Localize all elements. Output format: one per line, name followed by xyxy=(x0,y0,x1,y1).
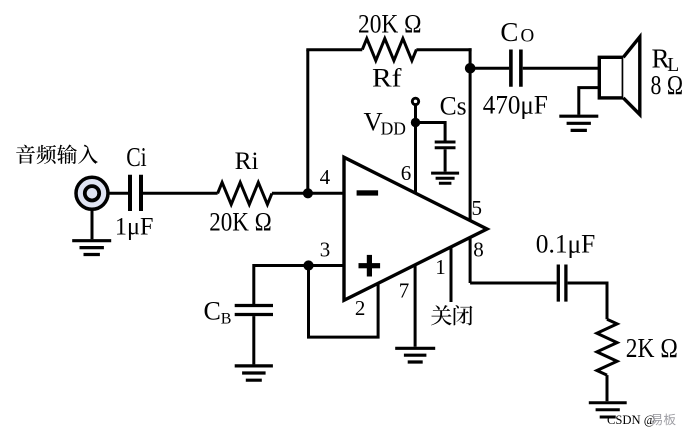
wire output vertical xyxy=(469,48,472,283)
svg-text:CSDN @: CSDN @ xyxy=(607,413,655,427)
capacitor 0.1μF xyxy=(558,265,566,302)
svg-text:2: 2 xyxy=(355,296,366,320)
svg-text:O: O xyxy=(521,25,535,46)
ground (CB) xyxy=(235,366,273,380)
svg-text:2K Ω: 2K Ω xyxy=(626,332,678,363)
svg-text:20K Ω: 20K Ω xyxy=(209,206,271,236)
node VDD junction xyxy=(411,118,420,127)
capacitor Ci xyxy=(130,175,141,211)
label RL xyxy=(652,44,680,77)
resistor Ri xyxy=(218,182,272,204)
label Co xyxy=(500,17,534,47)
svg-text:C: C xyxy=(204,297,221,326)
wire output to 0.1uF xyxy=(470,282,556,285)
label VDD xyxy=(364,106,406,138)
resistor 2K xyxy=(597,319,617,375)
svg-text:4: 4 xyxy=(320,165,331,189)
wire pin 7 to ground xyxy=(414,265,417,347)
wire feedback vertical xyxy=(306,50,309,194)
svg-text:1: 1 xyxy=(435,255,446,279)
plus symbol xyxy=(359,255,381,277)
wire Rf to output node xyxy=(416,48,471,51)
svg-text:3: 3 xyxy=(320,237,331,261)
op-amp U1 xyxy=(344,157,487,300)
VDD terminal xyxy=(412,98,418,104)
ground (speaker) xyxy=(559,116,598,130)
capacitor Cs xyxy=(435,142,456,148)
wire Ri to op-amp pin 4 xyxy=(272,192,344,195)
node: output junction xyxy=(465,63,476,74)
svg-text:7: 7 xyxy=(399,278,410,302)
wire pin 3 to CB xyxy=(254,266,344,305)
svg-text:6: 6 xyxy=(401,161,412,185)
wire output node to Co xyxy=(470,67,509,70)
svg-text:20K Ω: 20K Ω xyxy=(358,8,422,38)
wire 2K to ground xyxy=(606,375,609,401)
svg-text:Ci: Ci xyxy=(126,142,147,172)
wire speaker to ground xyxy=(579,88,600,115)
svg-text:8 Ω: 8 Ω xyxy=(651,70,684,100)
minus symbol xyxy=(357,190,379,195)
wire pin 2 loop xyxy=(309,266,379,338)
wire top left to Rf xyxy=(306,48,362,51)
svg-text:470μF: 470μF xyxy=(483,90,548,120)
node: inverting input junction xyxy=(303,188,313,198)
wire 0.1uF to 2K xyxy=(568,283,607,319)
svg-text:5: 5 xyxy=(472,196,483,220)
svg-text:1μF: 1μF xyxy=(115,211,153,240)
svg-text:C: C xyxy=(500,17,518,47)
svg-text:0.1μF: 0.1μF xyxy=(536,228,596,258)
ground (pin 7) xyxy=(395,348,435,362)
resistor Rf xyxy=(362,39,416,61)
svg-text:8: 8 xyxy=(473,237,484,261)
svg-text:Rf: Rf xyxy=(372,63,402,93)
input connector J1 xyxy=(76,177,108,209)
ground (2K) xyxy=(589,403,627,417)
svg-text:DD: DD xyxy=(381,118,406,138)
svg-text:B: B xyxy=(221,310,232,327)
ground (input connector) xyxy=(72,209,111,254)
wire VDD to pin 6 xyxy=(414,105,417,195)
capacitor Co xyxy=(511,50,521,87)
svg-text:Cs: Cs xyxy=(440,90,467,120)
wire CB to ground xyxy=(252,316,255,364)
wire Co to speaker xyxy=(523,67,600,70)
wire connector to Ci xyxy=(108,192,128,195)
label CB xyxy=(204,297,232,328)
音频输入 label (audio input) xyxy=(16,145,98,165)
svg-text:Ri: Ri xyxy=(235,146,259,175)
node: pin3 junction xyxy=(303,260,313,270)
wire Cs to ground xyxy=(444,149,447,171)
wire VDD node to Cs xyxy=(416,123,446,141)
speaker RL xyxy=(599,37,640,115)
capacitor CB xyxy=(235,306,273,315)
关闭 label (shutdown) xyxy=(431,305,472,325)
wire pin 1 stub xyxy=(450,247,453,302)
watermark CSDN @易板 xyxy=(607,413,676,427)
ground (Cs) xyxy=(431,173,459,183)
wire Ci to Ri xyxy=(143,192,218,195)
